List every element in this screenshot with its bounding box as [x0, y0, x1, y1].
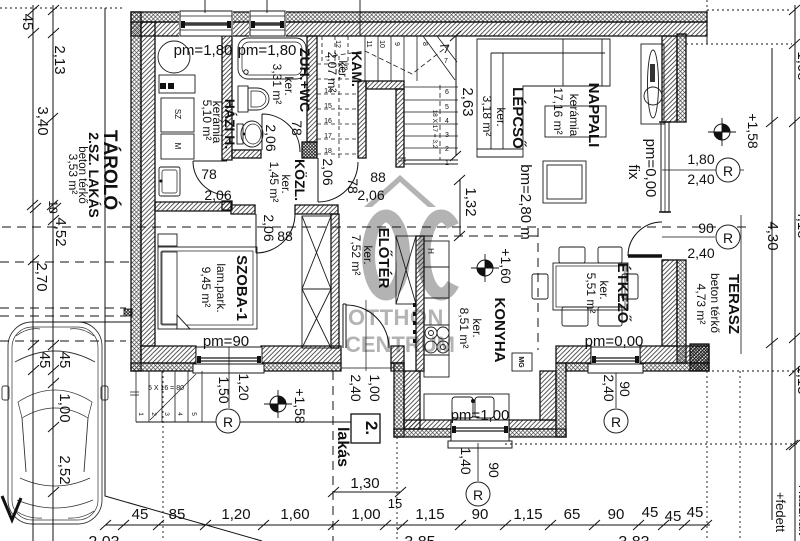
- walking line dashed: [325, 45, 449, 74]
- svg-text:2,70: 2,70: [33, 262, 50, 291]
- upper flight treads: [365, 36, 417, 81]
- svg-text:bm=2,80 m: bm=2,80 m: [517, 164, 534, 239]
- porch step numbers: [137, 412, 197, 416]
- dotted terrace verticals: [707, 371, 740, 541]
- svg-text:17: 17: [324, 133, 332, 140]
- MARKS: [216, 113, 761, 506]
- svg-text:1,00: 1,00: [367, 374, 383, 401]
- bottom dim line: [105, 524, 710, 526]
- south wall brick (szoba): [141, 346, 404, 363]
- svg-text:SZ: SZ: [173, 109, 182, 119]
- svg-text:ker.: ker.: [494, 107, 508, 126]
- svg-text:1,60: 1,60: [280, 506, 309, 523]
- nightstand: [158, 234, 177, 246]
- svg-text:8,51 m²: 8,51 m²: [457, 308, 471, 349]
- svg-text:90: 90: [698, 220, 714, 236]
- dashed property lines left: [0, 261, 131, 263]
- svg-text:TERASZ: TERASZ: [725, 274, 742, 334]
- svg-text:5: 5: [190, 412, 197, 416]
- svg-text:2,40: 2,40: [348, 374, 364, 401]
- dining table: [553, 263, 628, 310]
- ZUH+WC south cap: [232, 150, 261, 158]
- R circle porch: [216, 409, 240, 433]
- svg-text:1,80: 1,80: [687, 151, 714, 167]
- dotted right end tick: [786, 440, 798, 450]
- svg-text:88: 88: [277, 228, 293, 244]
- dotted top-left: [0, 7, 124, 9]
- window axis lines top: [205, 0, 360, 36]
- dim 1,32 line: [459, 180, 461, 236]
- sink HAZI H: [159, 167, 180, 196]
- svg-text:1,20: 1,20: [221, 506, 250, 523]
- right dim line inner: [771, 48, 773, 520]
- svg-text:4,18: 4,18: [794, 209, 800, 238]
- svg-text:M: M: [173, 143, 182, 150]
- terrace door leaf+arc: [628, 254, 662, 258]
- shower tray ZUH+WC: [238, 38, 306, 79]
- north V mark: [2, 496, 21, 520]
- counter HAZI H: [159, 75, 195, 93]
- terrace right edge: [740, 215, 742, 354]
- svg-text:+1,60: +1,60: [498, 248, 514, 284]
- svg-text:8: 8: [421, 42, 428, 46]
- porch steps: [130, 371, 202, 422]
- box M: [161, 134, 194, 159]
- right wall brick upper: [662, 36, 677, 122]
- svg-text:2,03: 2,03: [88, 534, 119, 541]
- watermark O letter: [369, 216, 404, 294]
- dashed konyha/etkezo separator: [537, 228, 539, 350]
- svg-text:15: 15: [388, 496, 402, 511]
- svg-text:1: 1: [137, 412, 144, 416]
- left dim line A: [32, 5, 34, 541]
- toilet ZUH+WC: [238, 86, 248, 112]
- svg-text:1,15: 1,15: [415, 506, 444, 523]
- plot boundary line: [105, 8, 262, 541]
- wall between HAZI H and ZUH+WC / KOZL: [222, 36, 232, 210]
- stair start mark: [398, 158, 406, 161]
- svg-text:3,31 m²: 3,31 m²: [270, 64, 284, 105]
- svg-text:1,08: 1,08: [794, 51, 800, 80]
- wall hinge ticks: [413, 303, 416, 343]
- svg-text:12: 12: [334, 40, 341, 48]
- svg-text:2,06: 2,06: [263, 124, 279, 151]
- svg-text:4,73 m²: 4,73 m²: [694, 284, 708, 325]
- svg-text:5 X 16 = 80: 5 X 16 = 80: [148, 385, 184, 392]
- svg-text:88: 88: [370, 169, 386, 185]
- KAM dashed treads under stair: [317, 64, 358, 154]
- svg-text:45: 45: [56, 352, 73, 369]
- svg-text:18 X 17 = 3,2: 18 X 17 = 3,2: [431, 110, 438, 149]
- R circle dining window: [604, 409, 628, 433]
- svg-text:pm=1,80: pm=1,80: [174, 42, 233, 59]
- right flight treads: [404, 87, 458, 148]
- svg-text:4: 4: [176, 412, 183, 416]
- svg-text:pm=1,00: pm=1,00: [451, 407, 510, 424]
- bay right wall: [540, 371, 556, 420]
- radiator under fix window: [641, 44, 664, 124]
- svg-text:90: 90: [608, 506, 625, 523]
- svg-text:1,50: 1,50: [216, 376, 232, 403]
- svg-text:1,30: 1,30: [350, 475, 379, 492]
- stove: [424, 325, 449, 355]
- bay bottom wall brick: [404, 420, 556, 429]
- svg-text:KAM.: KAM.: [349, 51, 365, 87]
- corner winder treads: [423, 36, 457, 80]
- R guide lines: [662, 170, 744, 237]
- right wall insulation lower: [677, 260, 686, 363]
- box SZ: [161, 98, 194, 132]
- door SZOBA-1 leaf+arc: [256, 214, 295, 253]
- svg-text:2,13: 2,13: [51, 45, 68, 74]
- svg-text:KONYHA: KONYHA: [491, 297, 508, 362]
- kitchen counters: [424, 267, 449, 298]
- svg-text:45: 45: [642, 504, 659, 521]
- svg-text:1,00: 1,00: [56, 393, 73, 422]
- svg-text:3,18 m²: 3,18 m²: [480, 96, 494, 137]
- ROOMTEXT: [66, 48, 742, 467]
- svg-text:45: 45: [665, 508, 682, 525]
- svg-text:1,15: 1,15: [513, 506, 542, 523]
- bed SZOBA-1: [158, 247, 257, 329]
- svg-text:ELŐTÉR: ELŐTÉR: [375, 228, 393, 289]
- svg-text:3: 3: [163, 412, 170, 416]
- kitchen / eloter wall: [416, 236, 424, 371]
- svg-text:R: R: [723, 163, 733, 179]
- svg-text:6: 6: [445, 89, 449, 96]
- svg-text:kerámia: kerámia: [567, 94, 581, 137]
- DOORS: [193, 114, 669, 371]
- svg-text:85: 85: [169, 506, 186, 523]
- svg-text:7,52 m²: 7,52 m²: [349, 235, 363, 276]
- dashed konyha north boundary: [424, 235, 538, 237]
- fix window right wall: [659, 122, 671, 212]
- svg-text:ZUH.+WC: ZUH.+WC: [297, 48, 313, 112]
- svg-text:1,15: 1,15: [794, 365, 800, 394]
- svg-text:18: 18: [324, 148, 332, 155]
- svg-text:2,06: 2,06: [357, 187, 384, 203]
- front door leaf+arc: [343, 304, 346, 348]
- door KAM leaf+arc: [318, 158, 358, 202]
- R circle fix window: [716, 158, 740, 182]
- wardrobe szoba: [302, 216, 331, 348]
- svg-text:+fedett: +fedett: [773, 492, 788, 533]
- bay bottom wall insulation: [394, 429, 566, 437]
- top wall insulation: [131, 12, 707, 22]
- bottom dim ticks: [100, 520, 712, 530]
- walking line arrow: [440, 45, 449, 53]
- STAIRS: [130, 36, 458, 422]
- svg-text:ker.: ker.: [597, 280, 611, 299]
- WATERMARK: [345, 175, 455, 357]
- watermark roof chevron: [364, 175, 436, 207]
- window dining pm=0,00: [588, 347, 643, 373]
- dotted terrace horizontals: [686, 10, 792, 44]
- svg-text:1,00: 1,00: [351, 506, 380, 523]
- right wall brick lower: [662, 260, 677, 346]
- svg-text:1,20: 1,20: [236, 373, 252, 400]
- svg-text:fix: fix: [625, 165, 642, 181]
- car: [2, 322, 108, 524]
- svg-text:+1,58: +1,58: [292, 388, 308, 424]
- svg-text:9,45 m²: 9,45 m²: [199, 267, 213, 308]
- svg-text:45: 45: [687, 504, 704, 521]
- window top-1 pm=1,80: [180, 11, 232, 36]
- svg-text:2,52: 2,52: [56, 455, 73, 484]
- svg-text:1,40: 1,40: [458, 447, 474, 474]
- stair bottom double line: [404, 160, 458, 164]
- svg-text:7: 7: [444, 58, 448, 65]
- svg-text:2,63: 2,63: [459, 87, 476, 116]
- left wall insulation: [131, 12, 141, 371]
- top wall window gaps: [179, 11, 233, 37]
- svg-text:1,45 m²: 1,45 m²: [267, 162, 281, 203]
- svg-text:ÉTKEZŐ: ÉTKEZŐ: [614, 263, 632, 324]
- svg-text:4,30: 4,30: [764, 221, 781, 250]
- 1,30 dim line: [333, 491, 400, 493]
- window top-2 pm=1,80: [250, 11, 285, 36]
- dim 2,63 line: [455, 36, 457, 156]
- WINDOWS: [180, 11, 671, 448]
- washbasin ZUH+WC: [237, 124, 243, 144]
- svg-text:5,10 m²: 5,10 m²: [200, 100, 214, 141]
- terrace end block: [690, 344, 709, 371]
- left dim ticks: [27, 5, 61, 497]
- svg-text:90: 90: [617, 381, 633, 397]
- wall eloter west: [331, 214, 339, 348]
- level mark +1,58 top right: [708, 113, 761, 149]
- terrace door threshold: [662, 212, 669, 260]
- svg-text:5,51 m²: 5,51 m²: [584, 273, 598, 314]
- washing machine HAZI H: [158, 41, 190, 73]
- door ZUH+WC leaf+arc: [262, 114, 300, 152]
- south wall insulation (szoba): [131, 363, 404, 371]
- window bay pm=1,00: [448, 420, 512, 448]
- svg-text:4,52: 4,52: [52, 217, 69, 246]
- svg-text:2,40: 2,40: [601, 374, 617, 401]
- svg-text:SZOBA-1: SZOBA-1: [233, 255, 250, 321]
- svg-text:4: 4: [445, 118, 449, 125]
- svg-text:15: 15: [324, 103, 332, 110]
- counter lower: [424, 355, 449, 377]
- svg-text:LÉPCSŐ: LÉPCSŐ: [509, 87, 527, 149]
- svg-text:45: 45: [19, 14, 36, 31]
- dashed lakas boundary: [332, 371, 334, 541]
- svg-text:pm=1,80: pm=1,80: [238, 42, 297, 59]
- svg-text:lakás: lakás: [334, 427, 351, 467]
- R circle bay window: [466, 482, 490, 506]
- level mark +1,60 kitchen: [471, 248, 514, 284]
- pier KOZL: [302, 142, 317, 158]
- svg-text:3,53 m²: 3,53 m²: [66, 154, 80, 195]
- 2. lakas box: [351, 414, 380, 443]
- svg-text:2.: 2.: [362, 421, 381, 435]
- svg-text:3,40: 3,40: [34, 106, 51, 135]
- south wall brick (dining): [556, 346, 709, 363]
- svg-text:R: R: [723, 230, 733, 246]
- bay left wall: [394, 363, 404, 437]
- watermark C letter: [424, 216, 453, 294]
- stair core top wall: [366, 81, 404, 89]
- svg-text:pm=90: pm=90: [203, 333, 249, 350]
- svg-text:16: 16: [324, 118, 332, 125]
- svg-text:2,06: 2,06: [261, 214, 277, 241]
- svg-text:2,40: 2,40: [687, 171, 714, 187]
- svg-text:OTTHON: OTTHON: [348, 305, 444, 330]
- coffee table: [543, 161, 586, 203]
- dotted porch verticals: [162, 371, 164, 541]
- wardrobe eloter: [396, 236, 416, 304]
- svg-text:NAPPALI: NAPPALI: [585, 83, 602, 148]
- tread numbers: [324, 40, 449, 167]
- wall ZUH+WC / KAM: [307, 36, 317, 142]
- stair core left wall: [358, 81, 366, 158]
- kitchen fridge H: [424, 241, 449, 267]
- svg-text:R: R: [473, 487, 483, 503]
- svg-text:R: R: [611, 414, 621, 430]
- svg-text:1: 1: [445, 160, 449, 167]
- svg-text:10: 10: [378, 40, 385, 48]
- walking line right flight dashed: [439, 85, 441, 160]
- svg-text:3,85: 3,85: [404, 534, 435, 541]
- left wall brick: [141, 22, 155, 346]
- right wall insulation upper: [677, 34, 686, 122]
- szoba north wall: [155, 202, 338, 214]
- svg-text:R: R: [223, 414, 233, 430]
- left dim line B: [52, 5, 54, 541]
- svg-text:+1,58: +1,58: [745, 113, 761, 149]
- svg-text:45: 45: [132, 506, 149, 523]
- R circle terrace door: [716, 225, 740, 249]
- svg-text:17,16 m²: 17,16 m²: [551, 87, 565, 134]
- svg-text:Használt: Használt: [796, 485, 800, 536]
- svg-text:2,07 m²: 2,07 m²: [325, 52, 339, 93]
- svg-text:H: H: [426, 248, 435, 254]
- svg-text:KÖZL.: KÖZL.: [292, 159, 308, 201]
- chairs: [559, 247, 585, 263]
- svg-text:45: 45: [36, 352, 53, 369]
- svg-text:65: 65: [564, 506, 581, 523]
- svg-text:2,40: 2,40: [687, 245, 714, 261]
- svg-text:1,32: 1,32: [462, 187, 479, 216]
- svg-text:2: 2: [150, 412, 157, 416]
- svg-text:2,06: 2,06: [204, 187, 231, 203]
- stair core right wall: [396, 89, 404, 167]
- svg-text:lam.park.: lam.park.: [214, 263, 228, 312]
- svg-text:90: 90: [486, 462, 502, 478]
- svg-text:pm=0,00: pm=0,00: [642, 139, 659, 198]
- svg-text:beton térkő: beton térkő: [708, 273, 722, 333]
- sofa NAPPALI: [477, 39, 610, 157]
- svg-text:2,06: 2,06: [320, 158, 336, 185]
- svg-text:pm=0,00: pm=0,00: [585, 333, 644, 350]
- svg-text:ker.: ker.: [470, 318, 484, 337]
- window szoba pm=90: [193, 347, 264, 373]
- south wall insulation (dining): [566, 363, 709, 371]
- svg-text:11: 11: [365, 40, 372, 47]
- svg-text:MG: MG: [517, 356, 524, 368]
- WALLS: [124, 11, 709, 437]
- right dim line outer: [794, 5, 796, 541]
- door HAZI H leaf+arc: [193, 161, 227, 195]
- svg-text:9: 9: [393, 42, 400, 46]
- svg-text:2: 2: [445, 146, 449, 153]
- svg-text:5: 5: [445, 104, 449, 111]
- svg-text:10: 10: [46, 200, 60, 214]
- porch edge line: [136, 421, 351, 423]
- bay counter with sink: [424, 394, 509, 420]
- svg-text:90: 90: [472, 506, 489, 523]
- svg-text:78: 78: [289, 120, 305, 136]
- svg-text:78: 78: [201, 166, 217, 182]
- level mark +1,58 porch: [264, 388, 308, 424]
- MG meter box: [512, 353, 532, 371]
- long dashed section line: [2, 226, 748, 228]
- top wall brick: [131, 22, 707, 36]
- wall anchor block left: [124, 309, 132, 316]
- svg-text:3: 3: [445, 132, 449, 139]
- media bench: [545, 106, 606, 137]
- svg-text:3,83: 3,83: [618, 534, 649, 541]
- FURNITURE: [2, 38, 664, 524]
